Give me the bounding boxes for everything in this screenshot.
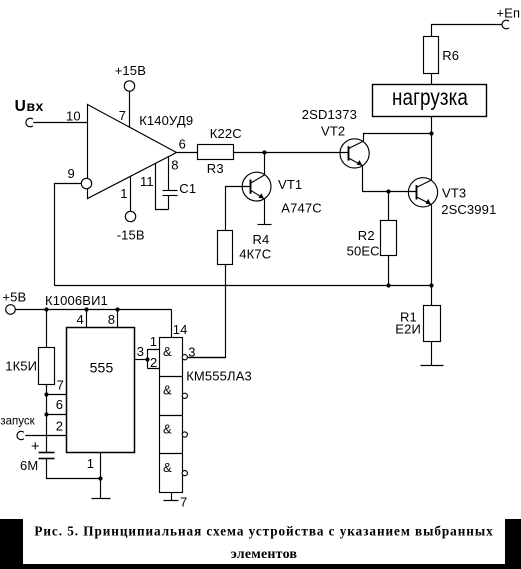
wire запуск to pin 2 xyxy=(25,435,66,437)
wire pin 14 of КМ555ЛА3 xyxy=(171,310,173,338)
label ampersand gate 3 xyxy=(163,421,172,436)
svg-text:7: 7 xyxy=(119,108,126,123)
node junction load-VT3 xyxy=(429,131,433,135)
svg-text:7: 7 xyxy=(180,495,187,510)
svg-text:R3: R3 xyxy=(207,161,224,176)
label pin 6 xyxy=(179,136,186,151)
wire pin 1 xyxy=(130,176,132,211)
terminal +Еп xyxy=(502,20,509,29)
gate 3 output bubble xyxy=(182,432,187,437)
svg-text:R4: R4 xyxy=(253,232,270,247)
svg-text:6: 6 xyxy=(56,397,63,412)
svg-text:3: 3 xyxy=(137,344,144,359)
label R3 xyxy=(207,161,224,176)
svg-text:2SC3991: 2SC3991 xyxy=(441,202,496,217)
label pin 1 of 555 xyxy=(87,456,94,471)
input terminal Uвх xyxy=(26,118,33,127)
terminal -15В xyxy=(125,211,135,221)
svg-text:7: 7 xyxy=(57,378,64,393)
gate 2 output bubble xyxy=(182,393,187,398)
svg-text:3: 3 xyxy=(188,345,195,360)
terminal +5В xyxy=(6,305,16,315)
svg-text:нагрузка: нагрузка xyxy=(392,84,468,111)
capacitor C2 6М xyxy=(39,453,55,459)
svg-text:Uвх: Uвх xyxy=(15,98,44,115)
label R1 xyxy=(400,309,417,324)
label К140УД9 xyxy=(139,113,193,128)
label pin 4 of 555 xyxy=(77,312,84,327)
wire feedback bottom rail xyxy=(55,285,432,287)
wire pin 1 of 555 xyxy=(100,453,102,499)
transistor VT1 xyxy=(242,172,271,201)
wire rail to resistor 1К5И xyxy=(46,310,48,348)
ground 555 xyxy=(92,498,111,500)
capacitor C1 xyxy=(163,191,178,210)
label gate input pin 1 xyxy=(150,334,157,349)
svg-text:Рис. 5. Принципиальная схема у: Рис. 5. Принципиальная схема устройства … xyxy=(34,523,493,538)
svg-text:50ЕС: 50ЕС xyxy=(347,244,380,259)
wire R2 top xyxy=(388,192,390,221)
resistor 1К5И xyxy=(39,348,55,385)
svg-text:-15В: -15В xyxy=(117,228,145,243)
svg-text:&: & xyxy=(163,421,172,436)
terminal запуск xyxy=(17,431,24,439)
label 50ЕС xyxy=(347,244,380,259)
wire pin 8 xyxy=(168,156,170,190)
wire VT2 collector xyxy=(364,134,432,142)
label VT3 xyxy=(442,185,466,200)
node junction pin6 xyxy=(44,412,48,416)
resistor R2 xyxy=(381,221,397,256)
svg-text:Е2И: Е2И xyxy=(395,322,421,337)
node junction pin1-cap xyxy=(98,476,102,480)
wire pin 4 of 555 xyxy=(86,310,88,328)
svg-text:&: & xyxy=(163,460,172,475)
svg-text:2SD1373: 2SD1373 xyxy=(302,107,357,122)
label plus of capacitor C2 xyxy=(31,439,40,455)
svg-text:4: 4 xyxy=(77,312,84,327)
wire gate 1 output to R4 xyxy=(188,357,226,359)
svg-text:А747С: А747С xyxy=(281,200,322,215)
node junction R3-VT1 xyxy=(262,150,266,154)
label 4К7С xyxy=(239,246,271,261)
label pin 7 xyxy=(119,108,126,123)
label КМ555ЛА3 xyxy=(186,369,252,384)
label Е2И xyxy=(395,322,421,337)
label pin 9 xyxy=(68,166,75,181)
gate 1 output bubble xyxy=(182,355,187,360)
svg-text:2: 2 xyxy=(150,355,157,370)
label запуск xyxy=(0,416,35,428)
svg-text:14: 14 xyxy=(173,322,188,337)
node junction pin7 xyxy=(44,392,48,396)
pin 9 inverting bubble xyxy=(81,178,91,188)
wire bracket to gate inputs 1 and 2 xyxy=(148,350,160,369)
label pin 14 xyxy=(173,322,188,337)
label Uвх xyxy=(15,98,44,115)
label R4 xyxy=(253,232,270,247)
svg-text:11: 11 xyxy=(140,174,154,189)
resistor R3 xyxy=(198,145,234,160)
terminal +15В xyxy=(124,81,134,91)
IC КМ555ЛА3 gate stack xyxy=(160,338,183,493)
svg-text:10: 10 xyxy=(66,108,81,123)
svg-text:&: & xyxy=(163,383,172,398)
wire VT2 emitter to VT3 base xyxy=(363,166,417,192)
node junction pin3 xyxy=(145,357,149,361)
label +5В xyxy=(2,289,26,304)
gate 4 output bubble xyxy=(182,471,187,476)
svg-text:+5В: +5В xyxy=(2,289,26,304)
svg-text:1К5И: 1К5И xyxy=(5,358,37,373)
label нагрузка xyxy=(392,84,468,111)
svg-text:К22С: К22С xyxy=(210,126,242,141)
label pin 10 xyxy=(66,108,81,123)
transistor VT2 xyxy=(340,139,369,168)
svg-text:1: 1 xyxy=(120,186,127,201)
node junction R2-feedback xyxy=(386,283,390,287)
op-amp U1 К140УД9 xyxy=(88,105,177,199)
label 1К5И xyxy=(5,358,37,373)
label pin 3 of 555 xyxy=(137,344,144,359)
svg-text:4К7С: 4К7С xyxy=(239,246,271,261)
resistor R6 xyxy=(424,37,439,74)
wire R6 to load xyxy=(431,74,433,85)
label pin 6 of 555 xyxy=(56,397,63,412)
label pin 1 xyxy=(120,186,127,201)
svg-text:VT3: VT3 xyxy=(442,185,466,200)
IC 555 box xyxy=(67,328,135,453)
svg-text:запуск: запуск xyxy=(0,416,35,428)
wire R2 bottom xyxy=(388,256,390,286)
svg-text:элементов: элементов xyxy=(231,547,298,562)
label pin 7 of КМ555ЛА3 xyxy=(180,495,187,510)
svg-text:К1006ВИ1: К1006ВИ1 xyxy=(45,293,108,308)
svg-text:2: 2 xyxy=(56,419,63,434)
wire pin 6 stub xyxy=(47,414,67,416)
node junction rail-pin8 xyxy=(115,307,119,311)
load box нагрузка xyxy=(373,85,487,117)
label 2SD1373 xyxy=(302,107,357,122)
wire VT1 base to R4 xyxy=(226,187,251,231)
transistor VT3 xyxy=(408,178,437,207)
node junction VT2e-R2 xyxy=(386,189,390,193)
node junction rail-pin4 xyxy=(84,307,88,311)
label VT1 xyxy=(278,177,302,192)
label pin 2 of 555 xyxy=(56,419,63,434)
svg-text:9: 9 xyxy=(68,166,75,181)
label +Еп xyxy=(496,6,520,21)
wire pin 8 of 555 xyxy=(117,310,119,328)
wire pin 11 xyxy=(156,163,169,210)
svg-text:6: 6 xyxy=(179,136,186,151)
wire VT1 emitter xyxy=(264,199,266,225)
wire feedback from pin 9 xyxy=(55,184,82,286)
ground VT1 xyxy=(258,224,272,226)
wire pin 3 of 555 xyxy=(135,359,148,361)
svg-text:К140УД9: К140УД9 xyxy=(139,113,193,128)
label pin 11 xyxy=(140,174,154,189)
label 2SC3991 xyxy=(441,202,496,217)
svg-text:1: 1 xyxy=(87,456,94,471)
wire capacitor bottom to pin 1 xyxy=(47,459,101,479)
wire VT3 collector to load xyxy=(431,117,433,181)
wire pin 6 output xyxy=(177,152,198,154)
resistor R1 xyxy=(424,306,441,342)
svg-text:555: 555 xyxy=(90,359,114,375)
label ampersand gate 1 xyxy=(163,344,172,359)
label 6М xyxy=(20,458,38,473)
node junction rail-1К5 xyxy=(44,307,48,311)
caption bottom black bar xyxy=(0,564,521,569)
node junction VT3e-R1 xyxy=(429,283,433,287)
label R2 xyxy=(358,228,375,243)
svg-text:С1: С1 xyxy=(179,181,196,196)
svg-text:+15В: +15В xyxy=(115,63,146,78)
label C1 xyxy=(179,181,196,196)
label -15В xyxy=(117,228,145,243)
resistor R4 xyxy=(218,231,233,265)
svg-text:8: 8 xyxy=(171,157,178,172)
label А747С xyxy=(281,200,322,215)
label pin 7 of 555 xyxy=(57,378,64,393)
wire 1К5И bottom to capacitor xyxy=(46,385,48,453)
wire R1 to ground xyxy=(431,342,433,366)
label +15В xyxy=(115,63,146,78)
ground КМ555ЛА3 pin 7 xyxy=(164,493,179,501)
caption text xyxy=(34,523,493,562)
wire VT3 emitter xyxy=(431,205,433,286)
svg-text:1: 1 xyxy=(150,334,157,349)
wire VT1 collector xyxy=(264,153,266,175)
wire input to pin 10 xyxy=(33,122,87,124)
label К22С xyxy=(210,126,242,141)
svg-text:VT1: VT1 xyxy=(278,177,302,192)
wire pin 7 stub xyxy=(47,394,67,396)
wire +5В rail xyxy=(15,309,171,311)
svg-text:6М: 6М xyxy=(20,458,38,473)
svg-text:+Еп: +Еп xyxy=(496,6,520,21)
ground R1 xyxy=(421,365,444,367)
svg-text:+: + xyxy=(31,439,40,455)
label pin 8 xyxy=(171,157,178,172)
wire R4 to gate 1 output xyxy=(188,265,226,358)
label gate output pin 3 xyxy=(188,345,195,360)
svg-text:VT2: VT2 xyxy=(321,124,345,139)
wire pin 7 xyxy=(129,91,131,127)
label pin 8 of 555 xyxy=(108,312,115,327)
svg-text:R6: R6 xyxy=(442,48,459,63)
svg-text:&: & xyxy=(163,344,172,359)
label ampersand gate 2 xyxy=(163,383,172,398)
svg-text:8: 8 xyxy=(108,312,115,327)
label VT2 xyxy=(321,124,345,139)
label К1006ВИ1 xyxy=(45,293,108,308)
label R6 xyxy=(442,48,459,63)
label 555 xyxy=(90,359,114,375)
label ampersand gate 4 xyxy=(163,460,172,475)
svg-text:КМ555ЛА3: КМ555ЛА3 xyxy=(186,369,252,384)
svg-text:R2: R2 xyxy=(358,228,375,243)
wire R1 top xyxy=(431,286,433,306)
wire +Еп to R6 xyxy=(432,25,503,37)
caption left black block xyxy=(0,519,23,569)
caption right black block xyxy=(505,519,521,569)
wire R3 to VT2 base xyxy=(234,152,349,154)
label gate input pin 2 xyxy=(150,355,157,370)
